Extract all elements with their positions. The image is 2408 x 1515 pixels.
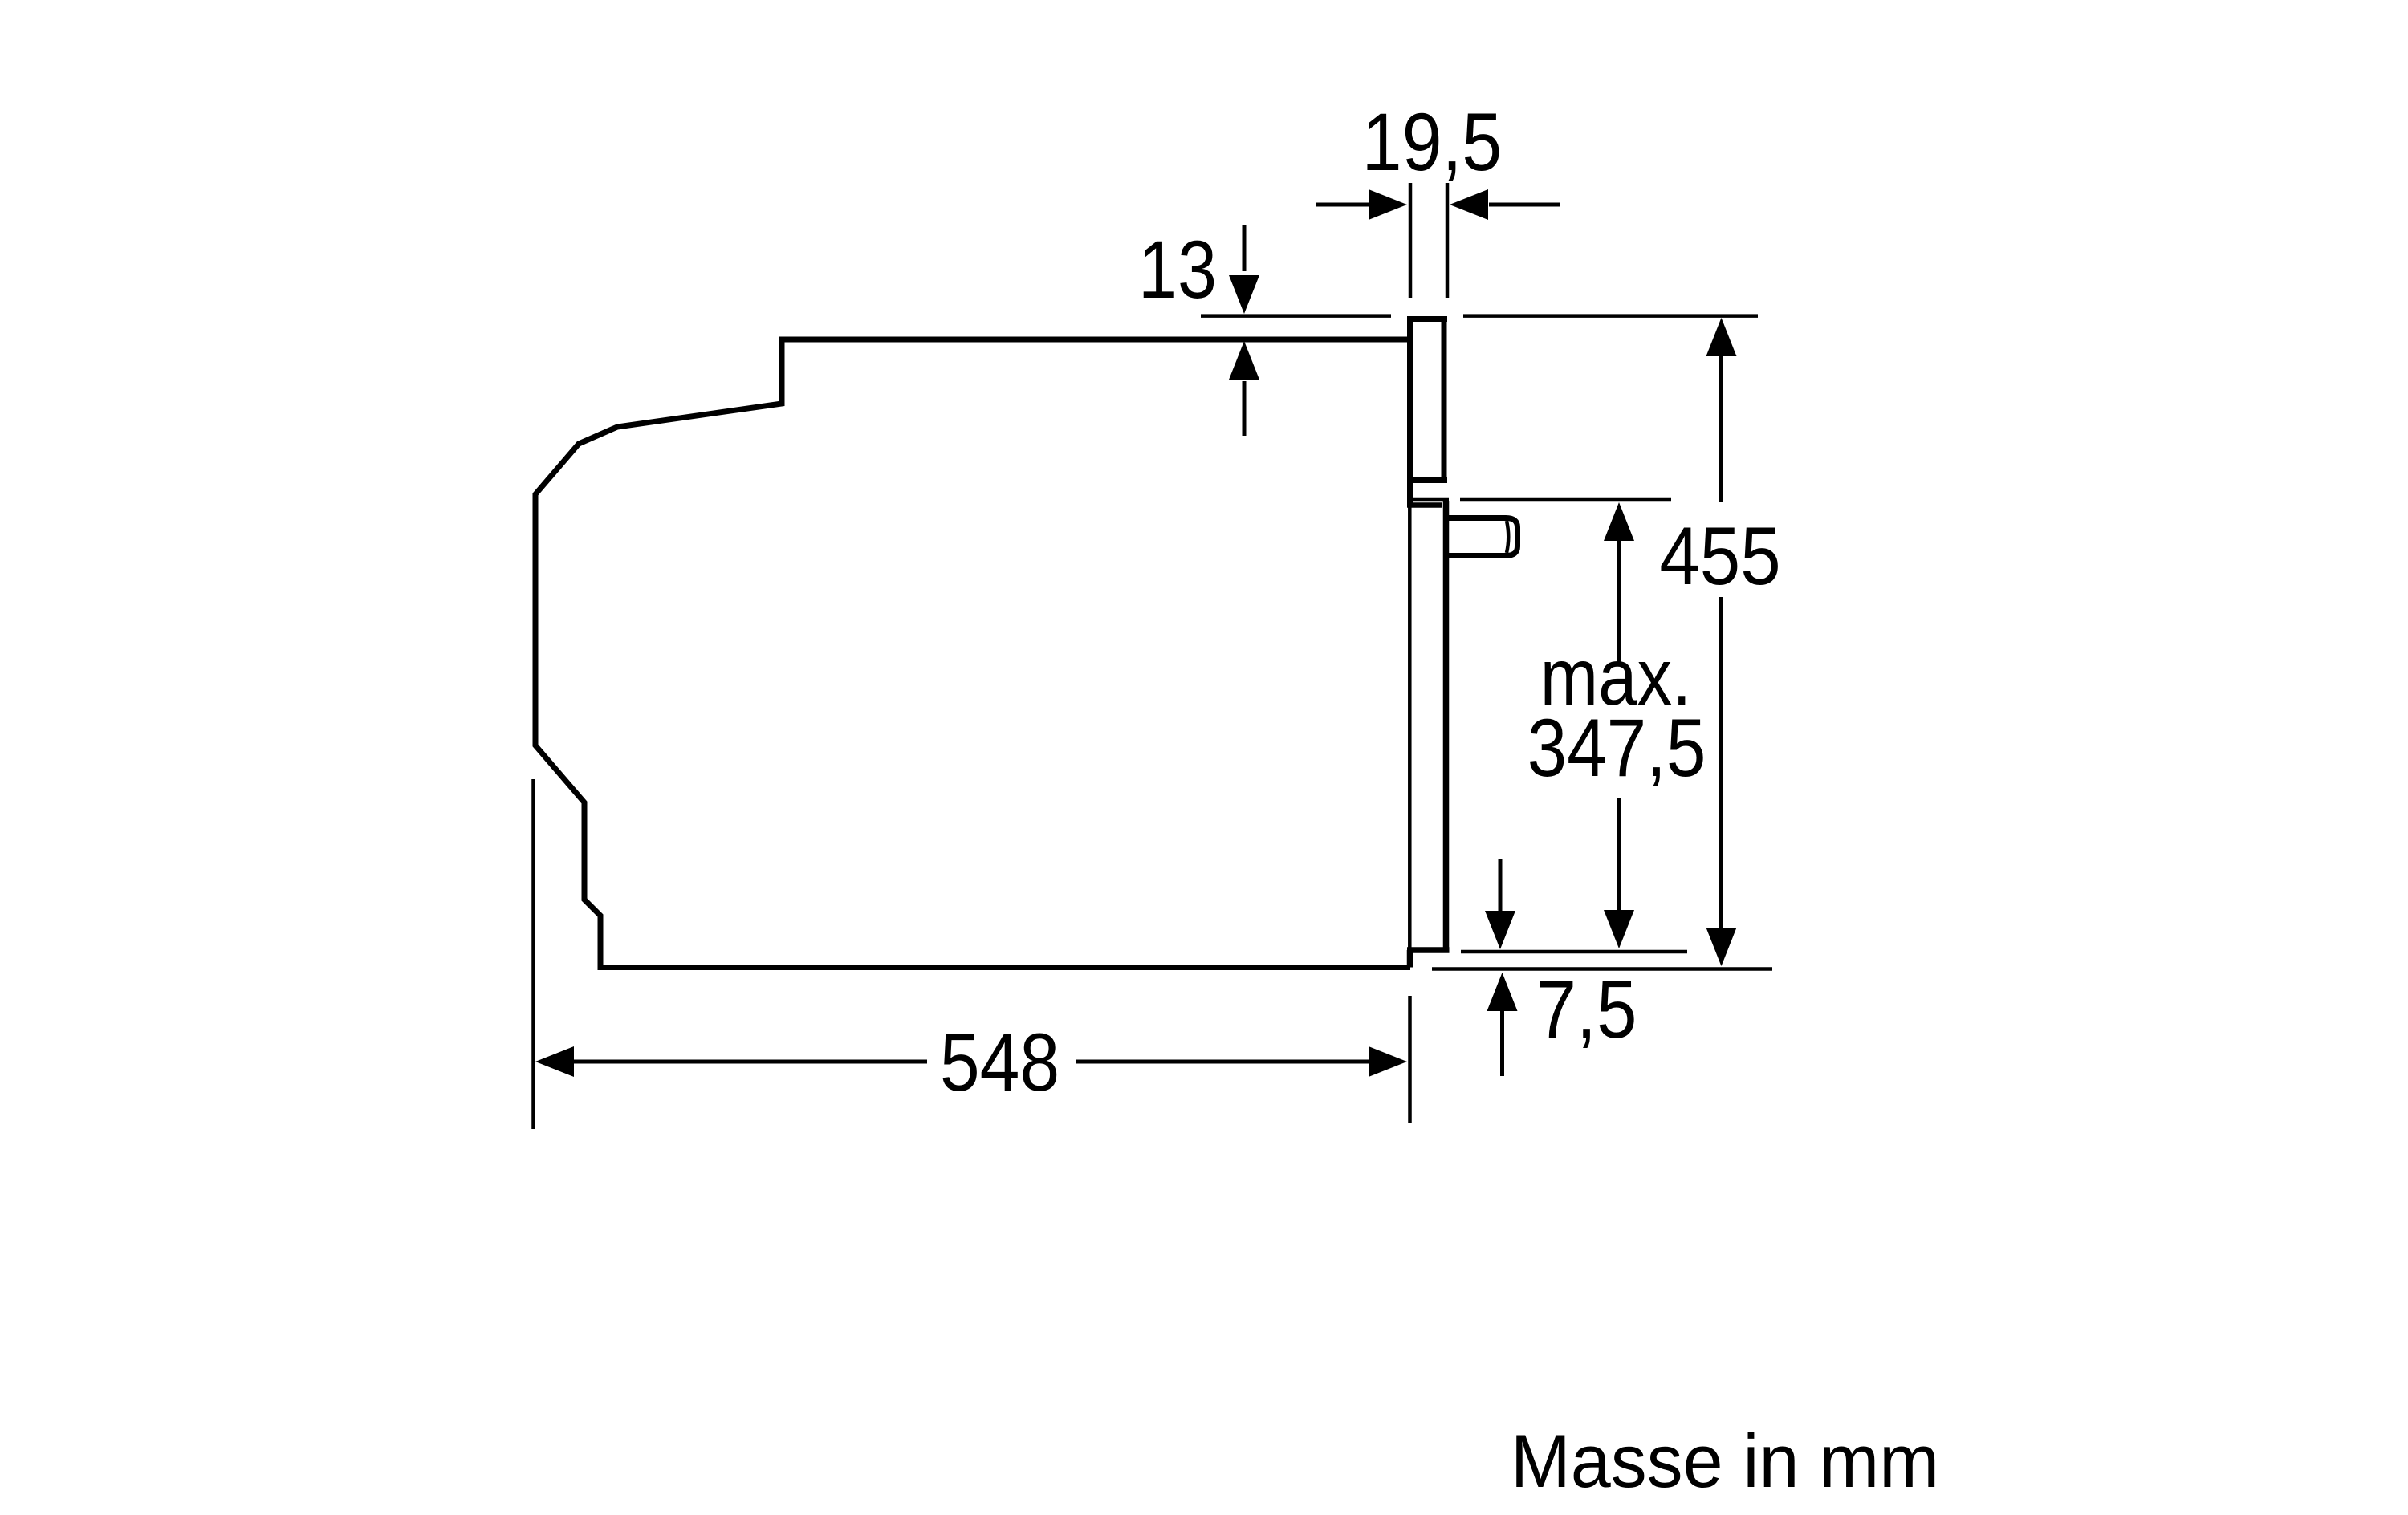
dim 548 label: [940, 1017, 1060, 1109]
dim 455 upper line with up arrow: [1719, 356, 1723, 502]
oven body outline: [535, 339, 1410, 968]
dim 13 up arrow: [1243, 381, 1247, 436]
dim 13 reference line: [1201, 314, 1391, 318]
max label: [1540, 632, 1692, 721]
dim 19,5 left arrowhead: [1369, 189, 1407, 220]
svg-text:347,5: 347,5: [1527, 702, 1706, 794]
control panel (upper door section) left edge: [1407, 316, 1413, 505]
dim 455 reference line (top right): [1463, 314, 1758, 318]
dim 455 lower line with down arrow: [1719, 597, 1723, 929]
oven door top inner edge: [1407, 502, 1442, 508]
oven door back (left) edge: [1408, 502, 1412, 950]
dim 19,5 label: [1362, 97, 1503, 189]
dim 347,5 label: [1527, 702, 1706, 794]
dim 19,5 left arrow line: [1316, 203, 1370, 207]
control knob body: [1449, 518, 1518, 556]
dim 347,5 lower line with down arrow: [1617, 798, 1621, 912]
caption Masse in mm: [1511, 1420, 1939, 1503]
dim 19,5 right arrowhead: [1450, 189, 1488, 220]
oven door bottom edge: [1407, 947, 1450, 953]
dim 19,5 right arrow line: [1489, 203, 1560, 207]
dim 7,5 label: [1536, 965, 1637, 1055]
oven door top edge: [1407, 498, 1449, 502]
dim 19,5 right extension line: [1446, 183, 1450, 298]
dim max 347,5 reference line: [1460, 498, 1671, 502]
dim 13 label: [1138, 225, 1217, 315]
dim 548 right extension line: [1408, 996, 1412, 1123]
control panel bottom edge: [1407, 477, 1447, 483]
svg-text:455: 455: [1659, 511, 1780, 602]
dim 7,5 upper line with down arrow: [1499, 859, 1503, 912]
svg-text:Masse in mm: Masse in mm: [1511, 1420, 1939, 1503]
dim 19,5 left extension line: [1409, 183, 1413, 298]
dim 455 label: [1659, 511, 1780, 602]
svg-text:13: 13: [1138, 225, 1217, 315]
dim 548 right arrow line: [1076, 1060, 1370, 1064]
control panel right edge: [1442, 316, 1447, 480]
control knob cap inner line: [1507, 521, 1508, 553]
dim 548 left extension line: [531, 779, 535, 1129]
door bottom reference line: [1461, 950, 1687, 954]
svg-text:548: 548: [940, 1017, 1060, 1109]
svg-text:7,5: 7,5: [1536, 965, 1637, 1055]
niche floor reference line: [1432, 967, 1772, 971]
dim 13 down arrow: [1243, 225, 1247, 271]
dim 7,5 lower line with up arrow: [1500, 1008, 1504, 1076]
dim 548 left arrow line: [572, 1060, 927, 1064]
door-to-body bottom connector: [1407, 950, 1413, 968]
dim 347,5 upper line with up arrow: [1617, 539, 1621, 664]
svg-text:19,5: 19,5: [1362, 97, 1503, 189]
oven door front (right) edge: [1443, 501, 1450, 953]
control panel top edge: [1407, 316, 1447, 322]
